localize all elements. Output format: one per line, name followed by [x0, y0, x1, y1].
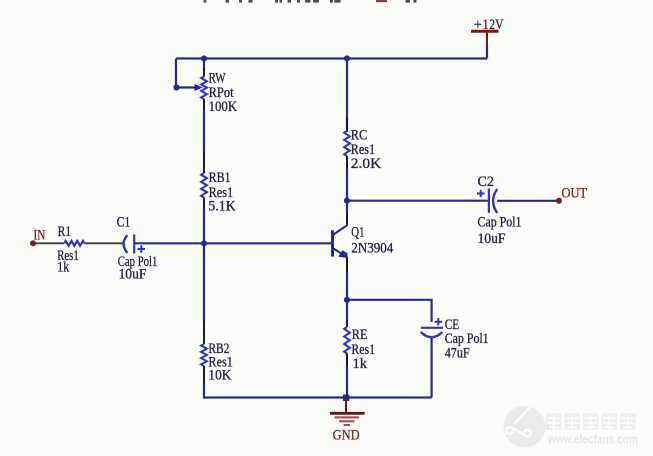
node junction bottom bus / GND	[343, 395, 349, 401]
capacitor C2 Cap Pol1 10uF	[477, 174, 522, 247]
wire emitter to junction	[346, 272, 348, 300]
node wiper corner dot	[173, 84, 179, 90]
svg-text:RE: RE	[352, 327, 368, 343]
node junction base / divider	[201, 240, 207, 246]
resistor RB1 Res1 5.1K	[201, 152, 236, 215]
svg-text:1: 1	[482, 17, 489, 33]
svg-text:2V: 2V	[489, 17, 504, 33]
svg-text:OUT: OUT	[562, 186, 588, 202]
svg-text:2.0K: 2.0K	[351, 156, 382, 172]
node junction collector / C2	[344, 198, 350, 204]
svg-text:10uF: 10uF	[478, 231, 506, 247]
svg-text:Cap Pol1: Cap Pol1	[478, 215, 522, 231]
svg-text:10K: 10K	[208, 368, 231, 384]
title text (cut off at top)	[204, 0, 417, 3]
node junction top bus / RW	[201, 55, 207, 61]
svg-text:C1: C1	[117, 215, 130, 231]
node junction top bus / RC	[344, 55, 350, 61]
wire CE to bottom bus	[431, 338, 433, 398]
wire RC top	[346, 59, 348, 133]
resistor RC Res1 2.0K	[344, 118, 382, 172]
potentiometer RW RPot 100K	[195, 68, 238, 115]
svg-text:RB1: RB1	[209, 170, 231, 186]
capacitor C1 Cap Pol1 10uF	[117, 215, 158, 283]
svg-text:R1: R1	[58, 224, 72, 240]
svg-text:1k: 1k	[57, 260, 70, 276]
svg-text:5.1K: 5.1K	[208, 199, 236, 215]
svg-text:Q1: Q1	[351, 224, 364, 240]
svg-text:2N3904: 2N3904	[351, 240, 394, 256]
svg-text:47uF: 47uF	[445, 346, 470, 362]
capacitor CE Cap Pol1 47uF	[421, 317, 489, 362]
resistor RE Res1 1k	[344, 320, 375, 372]
wire RB2 to bottom bus corner	[204, 383, 347, 398]
wire RB1 to base junction	[203, 209, 205, 243]
wire RW to RB1	[203, 110, 205, 153]
wire C2 to OUT	[497, 200, 559, 202]
svg-text:C2: C2	[478, 174, 494, 190]
wire RE to bottom bus	[346, 366, 348, 398]
watermark logo	[504, 405, 546, 448]
wire bottom bus right segment	[347, 396, 432, 398]
wire emitter junction to RE	[346, 300, 348, 321]
wire RC to collector junction	[346, 168, 348, 201]
wire IN to R1	[33, 242, 64, 244]
wire C1 to base	[134, 242, 331, 244]
svg-text:1k: 1k	[353, 356, 368, 372]
svg-text:www.elecfans.com: www.elecfans.com	[547, 432, 638, 447]
transistor Q1 2N3904	[333, 213, 394, 272]
wire R1 to C1	[84, 242, 122, 244]
wire emitter junction to CE	[347, 300, 432, 322]
ground GND	[330, 398, 365, 444]
power +12V	[471, 17, 504, 47]
resistor RB2 Res1 10K	[201, 320, 233, 384]
wire divider junction to RB2	[203, 243, 205, 321]
svg-text:GND: GND	[333, 427, 360, 443]
port OUT	[556, 186, 587, 204]
wire RW wiper branch	[176, 59, 196, 88]
port IN	[30, 227, 46, 246]
wire top bus to RW	[203, 59, 205, 71]
svg-text:100K: 100K	[209, 99, 238, 115]
svg-text:IN: IN	[34, 227, 46, 243]
wire +12V stub to top bus	[486, 46, 488, 59]
resistor R1 Res1 1k	[57, 224, 84, 276]
wire collector down	[346, 201, 348, 213]
svg-text:+: +	[474, 17, 482, 33]
node junction emitter / CE	[344, 297, 350, 303]
wire top bus	[176, 57, 487, 59]
svg-text:10uF: 10uF	[119, 267, 147, 283]
wire junction to C2	[347, 200, 489, 202]
watermark chinese text	[546, 414, 636, 431]
